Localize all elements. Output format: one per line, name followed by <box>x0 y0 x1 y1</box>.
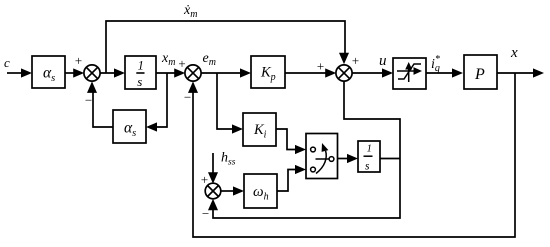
wire J1 to integrator <box>100 72 118 74</box>
arrow into J1 <box>73 68 84 77</box>
arrow into J4 bottom <box>208 199 218 211</box>
arrow into J2 bottom <box>188 81 198 93</box>
wire sat to P <box>426 72 457 74</box>
wire xdot_m feedback top <box>106 21 345 73</box>
block Ki <box>243 113 276 146</box>
arrowheads <box>21 53 544 211</box>
svg-text:+: + <box>200 172 209 187</box>
block P <box>464 55 497 89</box>
svg-text:1: 1 <box>138 59 144 73</box>
svg-text:hss: hss <box>221 151 236 168</box>
block saturation <box>393 58 426 89</box>
block switch <box>306 134 338 179</box>
arrow into alpha_s feedback <box>146 122 157 131</box>
wire Kp to J3 <box>285 72 330 74</box>
wire h_ss input <box>212 153 214 176</box>
wire omega_h to switch <box>277 170 299 192</box>
wire c input <box>7 72 22 74</box>
arrow into J1 bottom <box>87 81 97 93</box>
svg-text:em: em <box>203 51 216 68</box>
saturation symbol inside block <box>397 64 421 82</box>
arrow into switch lower <box>295 165 306 174</box>
arrow into omega_h <box>233 186 244 195</box>
svg-text:−: − <box>201 206 210 221</box>
wire tap to alpha_s feedback <box>153 73 167 127</box>
switch internals <box>311 147 334 173</box>
arrow into J3 left <box>325 68 336 77</box>
arrow into Ki <box>232 124 243 133</box>
arrow into alpha_s <box>21 68 32 77</box>
arrow into switch upper <box>295 145 306 154</box>
arrow into J3 top <box>339 53 349 64</box>
arrow into saturation <box>382 68 393 77</box>
wire switch to integrator2 <box>338 158 351 160</box>
svg-text:+: + <box>351 53 360 68</box>
arrow output x <box>533 68 544 77</box>
wire integrator2 out <box>380 158 400 160</box>
svg-text:x: x <box>510 45 518 61</box>
wire alpha_s to J1 <box>65 72 77 74</box>
summing junction J1 <box>84 65 100 81</box>
svg-text:s: s <box>365 161 370 173</box>
wire J2 to Kp <box>201 72 244 74</box>
block alpha_s feedback <box>113 110 146 143</box>
svg-text:s: s <box>137 74 142 89</box>
wire J4 to omega_h <box>221 190 237 192</box>
block Kp <box>251 56 285 88</box>
arrow into integrator2 <box>347 154 358 163</box>
block omega_h <box>244 174 277 208</box>
arrow into integrator <box>114 68 125 77</box>
svg-text:u: u <box>379 53 387 69</box>
arrow into Kp <box>240 68 251 77</box>
svg-text:ẋm: ẋm <box>183 3 197 20</box>
svg-text:−: − <box>183 90 192 105</box>
wire J3 down to node <box>213 81 400 218</box>
block integrator2 1/s <box>358 141 380 172</box>
summing junction J4 <box>205 183 221 199</box>
summing junction J2 e_m <box>185 65 201 81</box>
wire output x <box>497 72 537 74</box>
svg-text:xm: xm <box>161 51 175 68</box>
svg-text:i*q: i*q <box>431 54 440 74</box>
summing junction J3 <box>336 65 352 81</box>
block alpha_s forward <box>32 56 65 88</box>
arrow into J2 <box>174 68 185 77</box>
arrow into P <box>452 68 463 77</box>
svg-text:c: c <box>4 55 10 70</box>
svg-text:+: + <box>74 53 83 68</box>
svg-text:P: P <box>474 66 485 83</box>
wire x feedback down <box>193 73 515 237</box>
wire alpha_s feedback to J1 <box>93 88 113 127</box>
wire integrator to J2 <box>156 72 178 74</box>
svg-text:1: 1 <box>367 144 372 155</box>
svg-text:−: − <box>84 93 93 108</box>
wire tap to Ki <box>217 73 236 129</box>
block integrator 1/s <box>125 56 156 89</box>
wire u <box>352 72 386 74</box>
arrow h_ss into J4 <box>208 172 218 184</box>
svg-text:+: + <box>178 56 187 71</box>
svg-text:+: + <box>316 59 325 74</box>
wire Ki to switch <box>276 129 299 150</box>
